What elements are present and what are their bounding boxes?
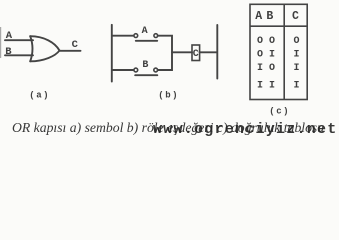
svg-text:O: O (269, 36, 275, 47)
svg-text:C: C (193, 49, 199, 60)
svg-text:I: I (257, 63, 263, 74)
svg-text:I: I (293, 81, 299, 92)
svg-text:(a): (a) (29, 91, 50, 101)
svg-text:I: I (269, 50, 275, 61)
svg-text:I: I (257, 81, 263, 92)
svg-text:O: O (269, 63, 275, 74)
svg-text:A: A (255, 10, 262, 23)
svg-text:www.ogrenciyiz.net: www.ogrenciyiz.net (153, 121, 338, 138)
svg-text:O: O (257, 50, 263, 61)
svg-text:C: C (72, 39, 79, 51)
svg-text:B: B (142, 60, 148, 71)
svg-text:C: C (292, 10, 299, 23)
svg-text:(b): (b) (158, 91, 179, 101)
svg-text:(c): (c) (269, 107, 290, 117)
svg-text:O: O (293, 36, 299, 47)
svg-text:I: I (293, 50, 299, 61)
svg-text:A: A (6, 30, 13, 42)
svg-text:B: B (266, 10, 273, 23)
svg-text:I: I (269, 81, 275, 92)
svg-text:I: I (293, 63, 299, 74)
svg-text:B: B (5, 46, 12, 58)
svg-text:A: A (142, 26, 148, 37)
svg-text:O: O (257, 36, 263, 47)
